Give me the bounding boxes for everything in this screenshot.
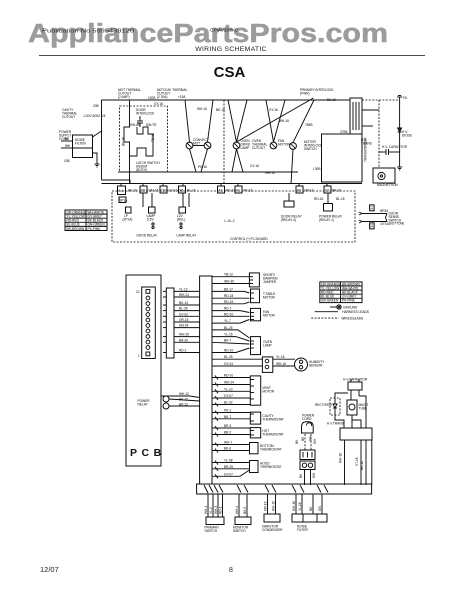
- legend table lower: [320, 282, 362, 303]
- wire BK lead-in: [61, 140, 73, 142]
- svg-text:C2: C2: [325, 189, 329, 193]
- svg-text:THERMOSTAT: THERMOSTAT: [260, 447, 282, 451]
- svg-text:DIODE: DIODE: [402, 133, 412, 137]
- svg-text:CSA: CSA: [214, 64, 246, 81]
- wire long diagonal: [293, 100, 314, 143]
- svg-text:CUTOUT: CUTOUT: [62, 115, 75, 119]
- lamp socket dots 3: [180, 223, 182, 225]
- svg-text:B2: B2: [297, 189, 301, 193]
- svg-text:SW-AB: SW-AB: [130, 123, 140, 127]
- svg-text:(BOTH): (BOTH): [136, 168, 147, 172]
- svg-text:RD-19: RD-19: [224, 300, 233, 304]
- svg-text:+15A: +15A: [178, 95, 186, 99]
- svg-text:BR-25: BR-25: [224, 465, 233, 469]
- wire lamp1 down: [190, 149, 197, 172]
- svg-text:RD-10: RD-10: [224, 312, 233, 316]
- dashed section divider: [223, 100, 225, 184]
- svg-text:YL-16: YL-16: [276, 355, 285, 359]
- svg-text:BK: BK: [299, 473, 303, 478]
- noise filter lower box: [292, 514, 327, 522]
- relay K1: [119, 197, 126, 203]
- svg-text:RECTIFIER: RECTIFIER: [315, 403, 333, 407]
- svg-text:BR-2: BR-2: [224, 431, 231, 435]
- svg-text:(2 AMP): (2 AMP): [118, 95, 130, 99]
- svg-text:CONTROL (*) P.C.BOARD: CONTROL (*) P.C.BOARD: [230, 237, 268, 241]
- svg-text:JUMPER: JUMPER: [263, 280, 277, 284]
- svg-text:PK-PINK: PK-PINK: [88, 227, 102, 231]
- svg-text:BK-6: BK-6: [224, 447, 231, 451]
- svg-text:WH: WH: [309, 435, 313, 441]
- wires to humidity sensor: [273, 358, 295, 360]
- svg-text:C10: C10: [161, 189, 167, 193]
- svg-text:THERMOSTAT: THERMOSTAT: [260, 465, 282, 469]
- svg-text:BK-16: BK-16: [122, 137, 126, 146]
- svg-text:RD-16: RD-16: [226, 189, 235, 193]
- HV transformer T2: [340, 428, 372, 440]
- svg-text:BR16: BR16: [380, 209, 388, 213]
- svg-text:VT-16: VT-16: [355, 457, 359, 466]
- wire filter to main: [93, 131, 102, 137]
- legend table top: [65, 210, 107, 231]
- wires leads legend: [311, 317, 339, 319]
- svg-text:-120V 60HZ 1Φ: -120V 60HZ 1Φ: [83, 114, 106, 118]
- bottom thermostat connector: [250, 443, 259, 454]
- wire filter out lower: [93, 153, 98, 160]
- connector oven lamp: [251, 337, 261, 355]
- hatch marks on band: [204, 485, 328, 493]
- svg-text:TB-16: TB-16: [151, 133, 155, 142]
- svg-text:D6: D6: [141, 189, 145, 193]
- svg-text:MAGNETRON: MAGNETRON: [377, 183, 398, 187]
- svg-text:BK-16: BK-16: [360, 461, 364, 470]
- antenna FA symbol: [397, 96, 402, 102]
- svg-text:GY-16: GY-16: [154, 102, 163, 106]
- transformer T1: [350, 98, 362, 134]
- svg-text:BL-25: BL-25: [224, 355, 233, 359]
- wire V pair oven lamp: [228, 100, 237, 142]
- svg-text:OR-15: OR-15: [179, 318, 189, 322]
- svg-text:WH-15: WH-15: [272, 501, 276, 511]
- lamp indicator 1: [126, 207, 132, 213]
- svg-text:GY-16: GY-16: [169, 189, 178, 193]
- svg-text:WH-3: WH-3: [214, 506, 218, 514]
- svg-text:WH-1: WH-1: [204, 506, 208, 514]
- motor M2 circle small: [290, 143, 297, 150]
- dashed HV vertical: [378, 100, 380, 167]
- svg-text:FILTER: FILTER: [297, 528, 308, 532]
- svg-text:PCB: PCB: [130, 447, 166, 459]
- svg-text:WH-24: WH-24: [224, 381, 234, 385]
- svg-text:(2 20A): (2 20A): [157, 95, 167, 99]
- primary switch box: [206, 517, 224, 525]
- svg-text:27B6: 27B6: [340, 130, 348, 134]
- relay door: [284, 201, 294, 207]
- svg-text:LAMP: LAMP: [241, 146, 250, 150]
- connector C10: [160, 186, 167, 193]
- HV capacitor C2: [348, 382, 362, 390]
- svg-text:SWITCH: SWITCH: [205, 529, 218, 533]
- svg-text:H.V.CAPACITOR: H.V.CAPACITOR: [343, 378, 368, 382]
- svg-text:GY-07: GY-07: [224, 472, 233, 476]
- svg-text:12: 12: [136, 290, 140, 294]
- svg-text:GN-24: GN-24: [179, 324, 189, 328]
- labels right wires group2: [224, 374, 234, 477]
- svg-text:OR-16: OR-16: [304, 189, 314, 193]
- svg-text:OR-15: OR-15: [264, 501, 268, 511]
- connector A7: [218, 186, 225, 193]
- power interlock block: [322, 134, 363, 182]
- svg-text:MOTOR: MOTOR: [263, 313, 276, 317]
- wire rail y181: [102, 180, 131, 184]
- svg-text:RD-7: RD-7: [224, 307, 232, 311]
- connector turntable motor: [251, 289, 260, 303]
- lamp socket dots 2: [152, 223, 154, 225]
- svg-text:WH-12: WH-12: [179, 392, 189, 396]
- svg-text:SENSOR: SENSOR: [309, 363, 323, 367]
- connector short damping jumper: [249, 273, 259, 287]
- wires transformer top links: [335, 390, 366, 424]
- bus duct: [200, 276, 212, 484]
- svg-text:SWITCH: SWITCH: [233, 529, 246, 533]
- header rule: [39, 55, 425, 57]
- PCB pin strip: [142, 287, 156, 359]
- harness leads legend: [315, 311, 338, 313]
- svg-text:BK-7: BK-7: [224, 338, 231, 342]
- svg-text:120B: 120B: [148, 96, 155, 100]
- svg-text:BK: BK: [295, 439, 299, 444]
- wires cord to band: [304, 470, 306, 486]
- svg-text:FA: FA: [403, 96, 408, 100]
- wires strip to bus with labels: [174, 291, 200, 352]
- svg-text:BR-3: BR-3: [224, 424, 231, 428]
- magnetron lower box: [347, 400, 357, 415]
- svg-text:WH-16: WH-16: [265, 171, 275, 175]
- svg-text:YL-2: YL-2: [209, 507, 213, 514]
- interlock switch second outline: [137, 127, 143, 134]
- magnetron V1: [373, 168, 395, 183]
- svg-text:RD-18: RD-18: [224, 294, 233, 298]
- humidity sensor connector: [262, 357, 272, 373]
- svg-text:RD-1: RD-1: [219, 506, 223, 514]
- lamp L2 circle: [204, 142, 211, 149]
- wires monitor switch: [239, 494, 247, 517]
- svg-text:(RELAY 4): (RELAY 4): [281, 218, 296, 222]
- svg-text:765B: 765B: [305, 123, 312, 127]
- latch switch assembly dashed box: [120, 106, 168, 172]
- motor M1 circle: [270, 142, 277, 149]
- svg-text:CONDENSER: CONDENSER: [262, 528, 283, 532]
- power relay contacts: [163, 396, 169, 402]
- svg-text:115V: 115V: [147, 217, 155, 221]
- connector B6: [179, 186, 186, 193]
- HV diode D1: [398, 101, 402, 167]
- svg-text:WH-16: WH-16: [197, 107, 207, 111]
- svg-text:1: 1: [138, 354, 140, 358]
- cavity thermostat connector: [250, 412, 260, 424]
- svg-text:INTERLOCK: INTERLOCK: [136, 111, 155, 115]
- svg-text:MOTOR: MOTOR: [262, 389, 275, 393]
- svg-text:WH-16: WH-16: [279, 119, 289, 123]
- svg-text:BL-02: BL-02: [224, 401, 233, 405]
- wire between lamps: [193, 145, 204, 147]
- connector fan motor: [251, 308, 261, 320]
- svg-text:WIRES/LEADS: WIRES/LEADS: [341, 317, 363, 321]
- wires varistor: [268, 494, 276, 514]
- ground at diode bottom: [397, 167, 402, 170]
- svg-text:B6: B6: [180, 189, 184, 193]
- wire brace right: [386, 214, 388, 222]
- svg-text:BR-16: BR-16: [332, 189, 341, 193]
- svg-text:31: 31: [370, 206, 374, 210]
- svg-text:WH: WH: [312, 472, 316, 478]
- door sense switch top connector 31: [370, 205, 375, 211]
- svg-text:HOOD RELAY: HOOD RELAY: [137, 234, 159, 238]
- noise filter box upper: [73, 135, 93, 148]
- connector C2: [324, 186, 331, 193]
- wire stubs into control board: [121, 184, 328, 207]
- svg-text:LAMP: LAMP: [263, 343, 272, 347]
- svg-text:WH-29: WH-29: [179, 333, 189, 337]
- svg-text:WH-16: WH-16: [292, 501, 296, 511]
- noise filter box lower: [73, 148, 93, 158]
- svg-text:BL-16: BL-16: [336, 197, 345, 201]
- svg-text:H.V.TRANS: H.V.TRANS: [327, 422, 344, 426]
- lamp indicator 2: [149, 207, 156, 213]
- svg-text:WH-24: WH-24: [179, 293, 189, 297]
- interlock capacitor: [137, 116, 143, 127]
- wire Y to 32: [359, 220, 387, 222]
- svg-text:WH-16: WH-16: [339, 453, 343, 463]
- svg-text:BR-20: BR-20: [179, 338, 188, 342]
- svg-text:WH-16: WH-16: [276, 362, 286, 366]
- svg-text:LAMP RELAY: LAMP RELAY: [177, 234, 198, 238]
- control board dashed box: [112, 191, 355, 242]
- svg-text:(REL): (REL): [177, 217, 185, 221]
- svg-text:WH-16: WH-16: [149, 189, 159, 193]
- HV capacitor C1: [379, 149, 400, 155]
- svg-text:CORD: CORD: [302, 417, 312, 421]
- svg-text:WH: WH: [313, 438, 317, 444]
- wire V pair lamp1: [185, 100, 190, 142]
- svg-text:A1: A1: [236, 189, 240, 193]
- svg-text:YL-12: YL-12: [179, 287, 188, 291]
- svg-text:GY-24: GY-24: [224, 362, 233, 366]
- svg-text:WH-4: WH-4: [235, 506, 239, 514]
- wire m2 down: [291, 149, 293, 184]
- wire V pair fan motor: [266, 100, 274, 142]
- svg-text:20B: 20B: [93, 104, 99, 108]
- varistor condenser box: [264, 514, 280, 522]
- svg-text:CPMV209KC: CPMV209KC: [210, 28, 239, 34]
- svg-text:SW-TR: SW-TR: [146, 123, 157, 127]
- svg-text:12/07: 12/07: [40, 565, 59, 574]
- wire Y to 31: [359, 212, 387, 214]
- svg-text:GY-16: GY-16: [250, 164, 259, 168]
- svg-text:9P1A: 9P1A: [120, 199, 129, 203]
- svg-text:(BOTTOM): (BOTTOM): [389, 222, 405, 226]
- svg-text:GROUND: GROUND: [343, 306, 358, 310]
- svg-text:BK-12: BK-12: [179, 402, 188, 406]
- connector D6: [140, 186, 147, 193]
- connector strip J1: [166, 288, 174, 358]
- relay power: [324, 204, 333, 212]
- svg-text:YB-12: YB-12: [224, 273, 233, 277]
- dashed cord wires: [304, 434, 306, 450]
- svg-text:WIRING SCHEMATIC: WIRING SCHEMATIC: [195, 46, 267, 53]
- svg-text:L-1/L-2: L-1/L-2: [225, 219, 235, 223]
- svg-text:SWITCH: SWITCH: [304, 147, 317, 151]
- right wires from bus: group1: [212, 277, 262, 366]
- door sense switch bottom connector 32: [370, 223, 375, 229]
- wire transformer to HV: [362, 109, 379, 111]
- lamp L1 circle: [186, 142, 193, 149]
- svg-text:HARNESS LEADS: HARNESS LEADS: [342, 310, 369, 314]
- svg-text:10B: 10B: [64, 159, 70, 163]
- wires noise filter: [296, 494, 322, 514]
- svg-text:BK-5: BK-5: [243, 507, 247, 514]
- svg-text:GY16: GY16: [380, 222, 388, 226]
- svg-text:YL-16: YL-16: [224, 333, 233, 337]
- connector A1: [235, 186, 242, 193]
- svg-text:A7: A7: [219, 189, 223, 193]
- wire m2 left feeder: [237, 98, 314, 142]
- hood thermostat connector: [250, 461, 259, 473]
- svg-text:PK-16: PK-16: [244, 189, 253, 193]
- svg-text:BK-16: BK-16: [128, 189, 137, 193]
- interlock switch stepped outline: [124, 100, 153, 156]
- vent motor box: [250, 376, 260, 405]
- svg-text:MOTOR: MOTOR: [278, 142, 291, 146]
- fuse box: [300, 450, 315, 460]
- connector 2circle box: [300, 461, 315, 470]
- svg-text:BK-12: BK-12: [179, 397, 188, 401]
- svg-text:Publication No 5995439120: Publication No 5995439120: [42, 29, 134, 35]
- svg-text:BK-17: BK-17: [224, 287, 233, 291]
- svg-text:BK: BK: [309, 506, 313, 511]
- svg-text:WH: WH: [65, 144, 71, 148]
- svg-text:MOT: MOT: [193, 141, 200, 145]
- svg-text:RD-10: RD-10: [224, 374, 233, 378]
- wires power relay to bus: [161, 396, 200, 406]
- svg-text:YL-08: YL-08: [224, 459, 233, 463]
- svg-text:PK-1: PK-1: [224, 409, 231, 413]
- svg-text:THERMOSTAT: THERMOSTAT: [262, 432, 284, 436]
- svg-text:(2P1A): (2P1A): [123, 217, 133, 221]
- svg-text:TRANS: TRANS: [361, 141, 372, 145]
- svg-text:BL-25: BL-25: [224, 326, 233, 330]
- svg-text:WH-35: WH-35: [224, 280, 234, 284]
- svg-text:RD-10: RD-10: [224, 349, 233, 353]
- wires below band group primary: [208, 494, 223, 517]
- svg-text:GY-16: GY-16: [269, 108, 278, 112]
- connector B2: [296, 186, 303, 193]
- wire WH lead-in: [61, 147, 73, 149]
- svg-text:CUTOUT: CUTOUT: [252, 146, 265, 150]
- lamp indicator 3: [179, 207, 186, 213]
- svg-text:RD-16: RD-16: [314, 197, 323, 201]
- svg-text:BL-16: BL-16: [187, 189, 196, 193]
- svg-text:I 30B: I 30B: [313, 167, 320, 171]
- power cord plug: [302, 422, 314, 433]
- svg-text:32: 32: [370, 224, 374, 228]
- wire interlock down: [129, 156, 131, 184]
- hot thermostat connector: [250, 428, 260, 438]
- svg-text:FILTER: FILTER: [75, 142, 86, 146]
- rectifier dashed box: [330, 398, 340, 415]
- svg-text:GY-02: GY-02: [179, 312, 188, 316]
- right wires group2 lower: [212, 378, 250, 477]
- svg-text:RD-2: RD-2: [179, 349, 187, 353]
- lamp L3 oven drive circle: [233, 142, 240, 149]
- ground legend symbol: [330, 305, 341, 309]
- wire top rail: [102, 99, 351, 101]
- connector F-4: [118, 186, 126, 195]
- humidity sensor B1: [295, 358, 308, 371]
- svg-text:BK: BK: [65, 137, 70, 141]
- wire lamp3 down: [232, 149, 237, 172]
- wire lamp2 down: [201, 149, 208, 172]
- rectifier diode symbol: [333, 398, 337, 415]
- svg-text:GN: GN: [318, 506, 322, 511]
- wire rail above connectors: [102, 183, 363, 185]
- svg-text:(PWR): (PWR): [300, 91, 310, 95]
- PCB box: [126, 275, 161, 466]
- svg-text:WH-7: WH-7: [224, 441, 232, 445]
- svg-text:MOTOR: MOTOR: [263, 295, 276, 299]
- wire left vertical: [101, 100, 103, 180]
- svg-text:BR-BROWN: BR-BROWN: [67, 227, 85, 231]
- svg-text:H.V. CAPACITOR: H.V. CAPACITOR: [382, 145, 408, 149]
- monitor switch box: [235, 517, 251, 525]
- svg-text:YL-16: YL-16: [298, 502, 302, 511]
- wire bottom rail upper area: [118, 171, 298, 173]
- svg-text:BK: BK: [301, 436, 305, 441]
- svg-text:THERMOSTAT: THERMOSTAT: [262, 417, 284, 421]
- wires transformer down to band: [345, 440, 367, 485]
- labels right wires group1: [224, 273, 234, 366]
- ground FG: [95, 160, 100, 167]
- svg-text:(RELAY 1): (RELAY 1): [319, 218, 334, 222]
- svg-text:GN-GREEN: GN-GREEN: [321, 299, 339, 303]
- dashed HV top link: [362, 99, 400, 101]
- svg-text:YL-7: YL-7: [224, 319, 231, 323]
- svg-text:BL-28: BL-28: [179, 307, 188, 311]
- svg-text:BK-14: BK-14: [179, 301, 188, 305]
- labels left wires: [179, 287, 189, 352]
- band bus bottom: [197, 484, 372, 494]
- right vertical band to transformer: [371, 440, 373, 485]
- svg-text:YL-10: YL-10: [224, 387, 233, 391]
- svg-text:8: 8: [229, 567, 233, 574]
- PCB pins: [146, 290, 150, 356]
- tick marks group2: [215, 376, 218, 479]
- svg-text:GY-07: GY-07: [224, 394, 233, 398]
- svg-text:RELAY: RELAY: [138, 402, 149, 406]
- svg-text:BK-7: BK-7: [224, 415, 231, 419]
- svg-text:PK-PINK: PK-PINK: [342, 299, 356, 303]
